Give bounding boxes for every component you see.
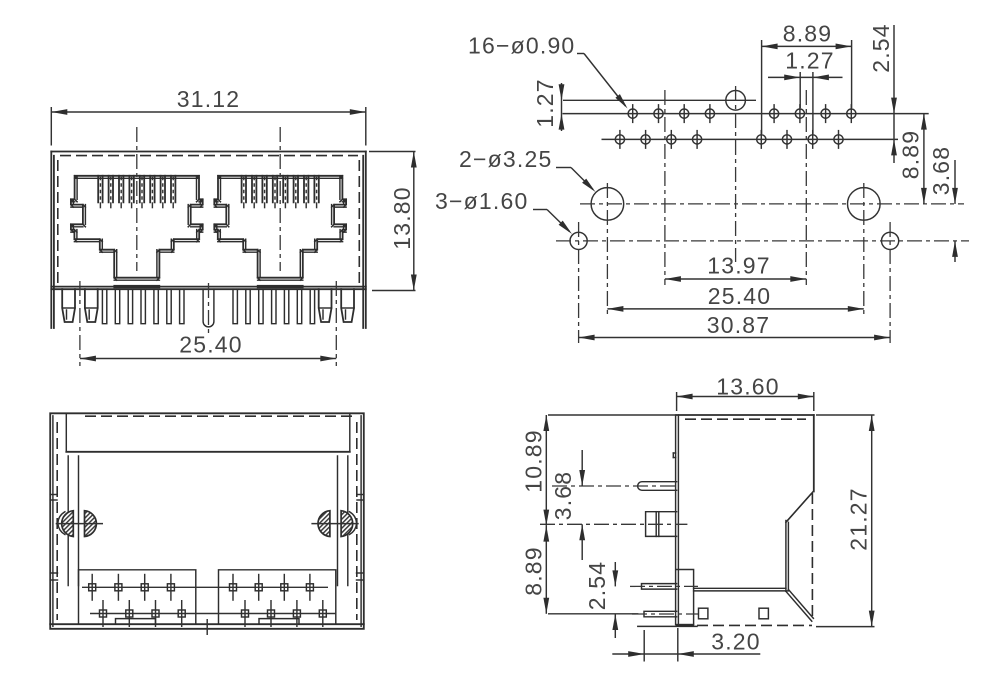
svg-text:13.97: 13.97: [707, 253, 771, 279]
pcb standoff post: [540, 512, 687, 537]
svg-text:8.89: 8.89: [783, 21, 833, 47]
port2 centerline v2: [805, 90, 807, 285]
front view hidden edge dashed top: [60, 155, 358, 157]
view2 vertical centerline: [735, 86, 737, 262]
big hole row centerline: [580, 203, 964, 205]
label 16-dia0.90 with leader: [468, 33, 628, 109]
left rail: [68, 456, 78, 586]
corner hole row centerline: [556, 240, 969, 242]
rear fold vertical: [786, 521, 789, 592]
dimension 3.68 right: [928, 146, 958, 262]
pcb base line solid: [638, 625, 697, 627]
svg-text:1.27: 1.27: [532, 78, 558, 128]
dimension 8.89 top: [762, 21, 852, 135]
bottom view pins lower row: [90, 600, 336, 627]
svg-text:3.20: 3.20: [711, 629, 761, 655]
svg-text:8.89: 8.89: [898, 130, 924, 180]
svg-text:2.54: 2.54: [868, 23, 894, 73]
port 1 pin holes top row: [628, 104, 714, 123]
dimension 8.89 right: [898, 114, 927, 204]
hole row bottom line: [602, 138, 899, 140]
standoff bracket right: [259, 619, 299, 624]
leg group centerline right: [335, 281, 337, 366]
shield inner bottom line: [694, 588, 789, 591]
port 1 latch opening bar: [113, 285, 160, 288]
front flange plate: [676, 570, 695, 628]
front band: [66, 413, 350, 452]
lower pin side: [632, 611, 698, 617]
bottom view hidden top edge: [85, 415, 356, 417]
pcb base line hidden: [697, 624, 812, 626]
svg-text:21.27: 21.27: [846, 487, 872, 551]
hole row top line: [563, 113, 929, 115]
side view body outline: [676, 415, 814, 625]
svg-text:10.89: 10.89: [521, 429, 547, 493]
shield leg 4: [341, 289, 354, 322]
svg-text:16−ø0.90: 16−ø0.90: [468, 33, 575, 59]
pin field right: [219, 570, 336, 623]
left edge notch: [50, 495, 57, 581]
square hole 1: [699, 608, 708, 619]
port 2 latch opening bar: [257, 285, 304, 288]
dimension 30.87: [579, 312, 891, 340]
upper pin side: [630, 584, 698, 590]
shield leg 1: [62, 289, 75, 322]
dimension 25.40 layout: [607, 283, 863, 312]
latch dimple right: [311, 511, 358, 537]
big mounting hole left: [591, 183, 624, 315]
shield leg 3: [319, 289, 332, 322]
port1 centerline v2: [664, 90, 666, 285]
svg-text:3.68: 3.68: [550, 471, 576, 521]
port 1 pins: [102, 289, 184, 324]
right edge notch: [357, 495, 364, 581]
standoff bracket left: [116, 619, 156, 624]
big mounting hole right: [848, 183, 881, 315]
shield ground tab: [552, 482, 677, 491]
leg group centerline left: [79, 281, 81, 366]
port 2 pin holes top row: [770, 104, 856, 123]
label 2-dia3.25 with leader: [459, 146, 596, 192]
svg-text:25.40: 25.40: [179, 332, 243, 358]
dimension 31.12: [51, 86, 366, 146]
svg-text:2.54: 2.54: [584, 561, 610, 611]
svg-text:13.80: 13.80: [389, 186, 415, 250]
latch dimple left: [56, 511, 103, 537]
dimension 1.27 left: [532, 78, 564, 131]
dimension 13.97: [665, 253, 806, 282]
port 1 cavity: [71, 176, 203, 280]
right rail: [338, 456, 348, 586]
dimension 3.68 side: [550, 450, 585, 560]
dimension 25.40 front: [80, 332, 336, 362]
left edge small notch: [673, 453, 675, 458]
bottom view center mark: [206, 619, 208, 635]
side view hidden right edge: [811, 493, 813, 621]
corner hole left: [570, 222, 587, 343]
front view hidden edge dashed left: [57, 160, 59, 284]
bottom view hidden right edge: [356, 422, 358, 620]
rear fold diagonal lower: [786, 590, 814, 622]
svg-text:2−ø3.25: 2−ø3.25: [459, 146, 552, 172]
dimension 3.20: [612, 628, 760, 662]
svg-text:31.12: 31.12: [177, 86, 241, 112]
front view hidden edge dashed right: [358, 160, 360, 284]
svg-text:25.40: 25.40: [708, 283, 772, 309]
port 2 pins: [233, 289, 315, 324]
port 2 centerline: [279, 127, 281, 271]
front view shield outline: [51, 152, 366, 329]
dimension 10.89: [521, 415, 676, 526]
bottom view hidden left edge: [56, 422, 58, 620]
dimension 2.54 side: [584, 561, 618, 638]
dimension 13.60: [677, 374, 814, 412]
dimension 21.27: [816, 415, 875, 627]
side view hidden top dashed: [685, 418, 806, 420]
bottom view outer outline: [50, 413, 364, 629]
dimension 13.80: [369, 152, 417, 291]
pin field left: [79, 570, 196, 623]
middle mounting hole: [563, 91, 756, 111]
svg-text:30.87: 30.87: [707, 312, 771, 338]
square hole 2: [759, 608, 768, 619]
port 2 contacts: [242, 176, 319, 209]
rear fold diagonal upper: [786, 491, 814, 522]
dimension 1.27 top: [768, 48, 843, 135]
label 3-dia1.60 with leader: [435, 188, 572, 234]
shield leg 2: [85, 289, 98, 322]
dimension 8.89 side: [521, 526, 639, 614]
port 1 pin holes bottom row: [615, 130, 701, 149]
port 2 pin holes bottom row: [757, 130, 843, 149]
bottom view pins upper row: [82, 574, 328, 601]
svg-text:13.60: 13.60: [716, 374, 780, 400]
port 2 cavity: [214, 176, 346, 280]
center post: [203, 283, 214, 334]
corner hole right: [882, 222, 899, 343]
svg-text:3.68: 3.68: [928, 146, 954, 196]
svg-text:8.89: 8.89: [521, 546, 547, 596]
svg-text:3−ø1.60: 3−ø1.60: [435, 188, 528, 214]
dimension 2.54 right: [868, 23, 897, 163]
svg-text:1.27: 1.27: [785, 48, 835, 74]
port 1 centerline: [136, 127, 138, 271]
port 1 contacts: [98, 176, 175, 209]
front view flange line: [51, 287, 366, 290]
